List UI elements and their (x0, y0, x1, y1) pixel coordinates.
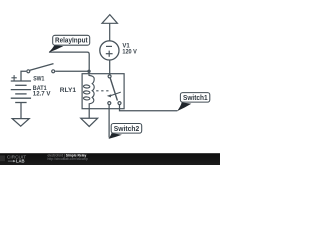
wire switch to junction (55, 70, 89, 72)
flag Switch2 (109, 124, 142, 139)
svg-text:http://circuitlab.com/c6cwcp: http://circuitlab.com/c6cwcp (48, 157, 88, 161)
svg-text:RLY1: RLY1 (60, 88, 77, 94)
relay contacts (108, 75, 121, 105)
wire relay to Switch2 flag (108, 105, 110, 138)
svg-text:120 V: 120 V (122, 49, 136, 55)
net arrow above V1 (102, 15, 117, 41)
svg-text:LAB: LAB (16, 159, 25, 164)
flag RelayInput (49, 35, 90, 52)
relay RLY1 box (82, 74, 124, 109)
relay actuation arrow (107, 92, 121, 97)
watermark bar (0, 153, 220, 165)
flag Switch1 (177, 93, 210, 112)
svg-text:SW1: SW1 (33, 76, 45, 82)
battery BAT1 (11, 81, 31, 103)
battery plus sign (11, 75, 16, 80)
svg-text:Switch1: Switch1 (183, 94, 208, 102)
node junction dot (87, 70, 90, 73)
svg-text:Switch2: Switch2 (114, 125, 139, 133)
wire battery plus to switch SW1 (21, 71, 26, 81)
wire relay to Switch1 flag (120, 105, 178, 111)
wire RelayInput flag to junction (49, 52, 89, 71)
voltage source V1 (100, 41, 119, 60)
switch SW1 (27, 64, 55, 73)
relay lever (110, 78, 117, 101)
wire V1 to relay contact (109, 60, 111, 75)
ground under relay coil (81, 109, 98, 127)
relay RLY1 coil (83, 71, 94, 108)
svg-text:12.7 V: 12.7 V (33, 91, 51, 97)
ground under battery (12, 103, 29, 127)
relay dashed actuation line (96, 90, 109, 92)
svg-text:RelayInput: RelayInput (55, 37, 88, 45)
